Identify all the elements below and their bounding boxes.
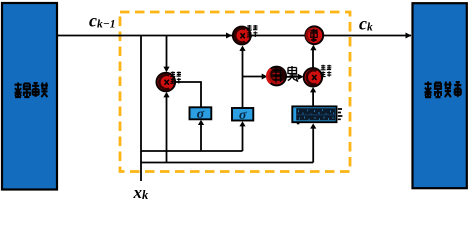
wire: c branch with arrow into U3 top pin — [166, 36, 168, 71]
svg-text:σ: σ — [239, 108, 247, 123]
arrowhead into module M2 — [406, 33, 412, 39]
arrowhead into multiplier U1 left pin — [226, 33, 232, 39]
module M1 (left data block) — [2, 3, 57, 190]
wire: feed line A — [141, 150, 243, 152]
wire: T1 output with arrow into U5 bottom pin — [312, 90, 314, 107]
wire: U4 output with arrow into U5 left pin — [286, 76, 302, 78]
svg-text:ck−1: ck−1 — [89, 11, 115, 31]
U5 gate label — [321, 65, 332, 77]
U1 gate label — [247, 25, 258, 37]
wire: feed riser with arrow into U3 bottom pin — [166, 94, 168, 163]
multiplier U1 — [233, 27, 251, 45]
svg-text:σ: σ — [197, 107, 205, 122]
sigma gate S2 (with value label) — [232, 108, 253, 121]
module M1 text label — [15, 83, 48, 98]
cell boundary (dashed memory-cell box) — [120, 12, 350, 172]
wire: riser with arrow into S2 bottom pin — [242, 123, 244, 151]
wire: U5 output with arrow into adder U2 bottom pin — [312, 47, 314, 68]
module M2 text label — [425, 82, 462, 98]
wire: input trunk from c bus junction down to node x_k — [140, 36, 142, 182]
module M2 (right data block) — [413, 3, 467, 188]
svg-text:ck: ck — [359, 14, 373, 34]
wire: c bus from node c_k-1 to node c_k — [57, 35, 411, 37]
wire: S2 output up with arrow into U1 bottom pin — [242, 48, 244, 109]
candidate block T1 (dense formula text) — [292, 106, 336, 122]
U4 node label — [288, 66, 298, 81]
sigma gate S1 (with value label) — [190, 107, 212, 119]
U3 gate label — [170, 72, 181, 84]
wire: U3 right pin to sigma gate S1 top — [175, 82, 201, 107]
multiplier U5 — [304, 68, 322, 86]
tanh node U4 — [267, 67, 286, 86]
wire: feed riser with arrow into T1 bottom — [312, 125, 314, 162]
svg-text:xk: xk — [133, 183, 150, 202]
wire: feed line B — [141, 162, 313, 164]
adder U2 — [305, 26, 323, 44]
multiplier U3 — [157, 73, 176, 92]
T1 label overflow specks — [338, 109, 343, 119]
wire: riser with arrow into S1 bottom pin — [200, 122, 202, 152]
wire: branch with arrow into U4 left pin — [243, 76, 266, 78]
